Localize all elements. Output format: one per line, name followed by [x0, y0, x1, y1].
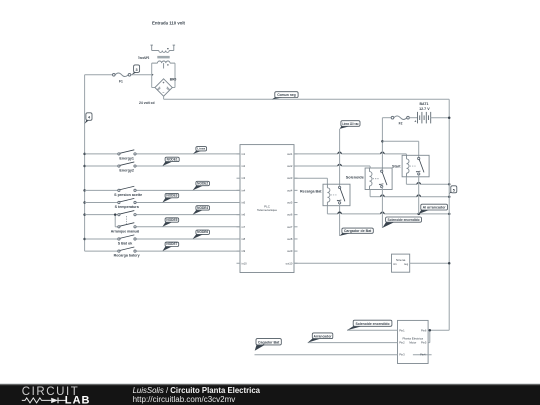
siren block Sirena	[392, 254, 410, 272]
svg-text:LuisSolis / Circuito Planta El: LuisSolis / Circuito Planta Electrica	[133, 386, 261, 395]
svg-text:Solenoide encendido: Solenoide encendido	[388, 218, 420, 222]
footer url	[133, 395, 236, 404]
svg-text:Cagador Bat: Cagador Bat	[258, 341, 280, 345]
svg-text:Pin1: Pin1	[399, 328, 405, 332]
svg-text:out3: out3	[287, 176, 293, 180]
svg-text:NODE7: NODE7	[166, 242, 177, 246]
CircuitLab logo	[22, 386, 91, 405]
svg-text:24 volt cd: 24 volt cd	[139, 101, 155, 105]
bridge rectifier BR0	[152, 63, 177, 99]
svg-text:Motor: Motor	[409, 341, 416, 345]
svg-text:Telemecanique: Telemecanique	[257, 208, 277, 212]
footer title LuisSolis / Circuito Planta Electrica	[133, 386, 261, 395]
svg-text:Arrancador: Arrancador	[314, 334, 333, 338]
net flag Solenoide encendido	[382, 217, 421, 228]
svg-text:out5: out5	[287, 201, 293, 205]
svg-text:neg: neg	[404, 263, 409, 266]
net flag NODE2	[193, 181, 210, 190]
wire: Linea 110 vac net to Recarga Bat switch	[339, 129, 341, 189]
svg-text:Planta Electrica: Planta Electrica	[403, 337, 424, 341]
relay Recarga Bat	[300, 184, 350, 206]
transformer TransfUPS	[138, 45, 175, 68]
svg-text:Energy2: Energy2	[119, 169, 134, 173]
net flag Linea 110 vac	[340, 121, 360, 129]
wire: Recarga Bat coil return to right bus	[327, 206, 450, 215]
svg-text:out4: out4	[287, 188, 293, 192]
node flag 5	[449, 186, 457, 194]
svg-text:12.7 V: 12.7 V	[419, 107, 430, 111]
wire: Solenoide switch to Solenoide encendido flag	[381, 187, 383, 228]
svg-text:Sirena: Sirena	[396, 258, 406, 262]
wire: Sirena to right bus	[410, 262, 451, 265]
svg-text:Start: Start	[392, 164, 402, 168]
svg-text:Entrada 110 volt: Entrada 110 volt	[152, 21, 186, 26]
wire: Cagador Bat to Planta Pin3	[255, 354, 398, 356]
svg-text:+: +	[163, 81, 165, 85]
svg-text:in3: in3	[242, 176, 246, 180]
svg-text:out9: out9	[287, 249, 293, 253]
svg-text:+: +	[414, 120, 416, 124]
svg-text:S presion aceite: S presion aceite	[114, 193, 142, 197]
net flag Arrancador	[308, 333, 333, 343]
PLC Telemecanique block	[237, 145, 298, 273]
svg-text:BR0: BR0	[170, 78, 177, 82]
svg-text:Solenoide encendido: Solenoide encendido	[356, 322, 390, 326]
svg-text:LAB: LAB	[65, 395, 91, 405]
wire: Solenoide encendido to Planta Pin1	[347, 329, 398, 331]
svg-text:NODE3: NODE3	[166, 193, 177, 197]
svg-text:in8: in8	[242, 237, 246, 241]
wire: right vertical bus (common negative)	[448, 99, 451, 330]
svg-text:5: 5	[453, 188, 455, 192]
svg-text:Linea: Linea	[197, 147, 205, 151]
svg-text:Cargador de Bat: Cargador de Bat	[344, 229, 372, 233]
net flag Cargador de Bat	[340, 228, 374, 236]
switch S presion aceite (row in4)	[85, 186, 240, 197]
switch Arranque manual pole A (row in6)	[85, 211, 240, 216]
net flag Cagador Bat	[255, 339, 282, 351]
wire: Start coil return to right bus	[406, 177, 450, 186]
svg-text:out6: out6	[287, 213, 293, 217]
svg-text:NODE6: NODE6	[197, 230, 208, 234]
svg-text:Pin6: Pin6	[421, 328, 427, 332]
svg-text:BAT1: BAT1	[420, 102, 429, 106]
relay Solenoide	[346, 168, 392, 190]
switch Recarga batery (row in9)	[85, 247, 240, 258]
svg-text:Arranque manual: Arranque manual	[111, 229, 140, 233]
svg-text:in6: in6	[242, 213, 246, 217]
svg-text:in1: in1	[242, 152, 246, 156]
svg-text:in1: in1	[393, 262, 397, 266]
svg-text:NODE4: NODE4	[197, 206, 208, 210]
net flag Comun neg	[272, 92, 298, 100]
switch Energy2 (row in2)	[85, 162, 240, 173]
svg-text:out1: out1	[287, 152, 293, 156]
wire: PLC out3 to Recarga Bat relay coil	[294, 178, 327, 184]
svg-text:out10: out10	[286, 261, 293, 265]
label: 24 volt cd	[139, 101, 155, 105]
svg-text:http://circuitlab.com/c3cv2mv: http://circuitlab.com/c3cv2mv	[133, 395, 236, 404]
svg-text:F2: F2	[399, 121, 403, 125]
svg-text:in5: in5	[242, 201, 246, 205]
wire: branch to Start relay switch	[382, 141, 418, 158]
wire: DC negative line from BR0 to right bus	[164, 98, 450, 100]
svg-text:Solenoide: Solenoide	[346, 176, 364, 180]
svg-text:Al arrancador: Al arrancador	[423, 206, 447, 210]
fuse F1	[113, 73, 131, 83]
wire: Start switch to common return line	[418, 174, 420, 214]
svg-text:3: 3	[136, 68, 138, 72]
svg-text:in7: in7	[242, 225, 246, 229]
node flag 4	[85, 113, 92, 124]
wire: PLC out2 to Solenoide relay coil	[294, 164, 370, 168]
net flag NODE6	[193, 230, 210, 239]
svg-text:NODE2: NODE2	[197, 181, 208, 185]
svg-text:F1: F1	[119, 79, 123, 83]
switch Arranque manual pole B (row in7)	[111, 223, 240, 234]
switch S Bat ok (row in8)	[85, 235, 240, 246]
svg-text:out8: out8	[287, 237, 293, 241]
switch S temperatura (row in5)	[85, 198, 240, 209]
svg-text:out7: out7	[287, 225, 293, 229]
svg-text:Energy1: Energy1	[119, 156, 134, 160]
footer bar	[0, 383, 540, 405]
svg-text:Pin5: Pin5	[421, 341, 427, 345]
wire: gang link between Arranque manual poles	[114, 213, 127, 226]
wire: Solenoide coil return to right bus	[370, 190, 450, 198]
wire: left vertical bus with junctions	[83, 75, 86, 251]
net flag NODE4	[193, 206, 210, 215]
wire: battery positive rail F2 to Solenoide switch	[381, 118, 384, 171]
wire: left bus top to fuse F1 and transformer	[85, 74, 154, 76]
svg-text:Pin2: Pin2	[399, 341, 405, 345]
net flag Linea	[193, 147, 207, 154]
switch Energy1 (row in1)	[85, 150, 240, 161]
svg-text:out2: out2	[287, 164, 293, 168]
svg-text:in10: in10	[242, 261, 248, 265]
svg-text:NODE1: NODE1	[167, 157, 178, 161]
svg-text:Linea 110 vac: Linea 110 vac	[342, 122, 359, 126]
wire: right bus to Planta Pin6 and Pin5	[428, 329, 449, 343]
wire: Arrancador to Planta Pin2	[308, 342, 398, 344]
svg-text:Comun neg: Comun neg	[277, 93, 296, 97]
svg-text:in2: in2	[242, 164, 246, 168]
svg-text:S Bat ok: S Bat ok	[118, 241, 133, 245]
svg-text:−: −	[163, 91, 165, 95]
svg-text:TransfUPS: TransfUPS	[138, 56, 150, 60]
net flag Al arrancador	[419, 204, 448, 214]
svg-text:Pin3: Pin3	[399, 353, 405, 357]
net flag NODE5	[162, 218, 178, 227]
svg-text:Recarga batery: Recarga batery	[114, 254, 140, 258]
label: Entrada 110 volt	[152, 21, 186, 26]
node flag 3	[132, 65, 140, 75]
battery BAT1 12.7 V	[409, 102, 449, 123]
fuse F2	[391, 116, 409, 125]
net flag NODE1	[162, 157, 179, 166]
wire: PLC out10 to Sirena	[294, 262, 392, 264]
wire: PLC out1 to Start relay coil	[294, 152, 406, 155]
svg-text:in4: in4	[242, 188, 246, 192]
svg-text:Recarga Bat: Recarga Bat	[300, 189, 322, 193]
svg-text:S temperatura: S temperatura	[115, 205, 139, 209]
wire: Recarga Bat switch to Cargador de Bat flag	[339, 204, 341, 236]
relay Start	[392, 155, 429, 177]
net flag NODE7	[162, 242, 178, 251]
net flag Solenoide encendido (Planta)	[347, 320, 392, 330]
wire: battery rail corner to fuse F2	[382, 117, 391, 119]
generator block Planta Electrica	[398, 320, 432, 363]
svg-text:in9: in9	[242, 249, 246, 253]
svg-text:Pin4: Pin4	[420, 353, 426, 357]
svg-text:NODE5: NODE5	[166, 218, 177, 222]
net flag NODE3	[162, 193, 178, 202]
